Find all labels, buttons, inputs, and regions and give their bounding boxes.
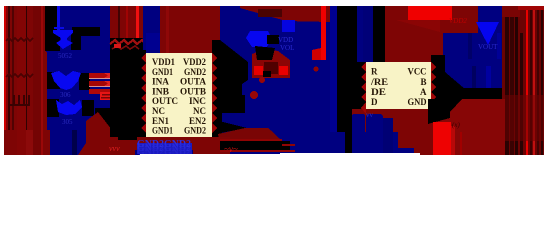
svg-text:GND1: GND1 bbox=[152, 67, 173, 77]
svg-text:306: 306 bbox=[60, 91, 71, 99]
svg-text:D: D bbox=[371, 97, 378, 107]
svg-text:EN1: EN1 bbox=[152, 116, 169, 126]
svg-text:VOUT: VOUT bbox=[478, 43, 498, 51]
svg-text:~v~: ~v~ bbox=[224, 144, 238, 154]
svg-text:GND2: GND2 bbox=[184, 67, 206, 77]
svg-text:VDD1: VDD1 bbox=[152, 57, 175, 67]
svg-text:A: A bbox=[420, 87, 427, 97]
svg-text:GND: GND bbox=[408, 97, 427, 107]
svg-text:OUTB: OUTB bbox=[180, 86, 206, 96]
svg-text:VDD2: VDD2 bbox=[449, 17, 467, 25]
svg-text:VDD: VDD bbox=[278, 36, 293, 44]
svg-text:/RE: /RE bbox=[370, 77, 388, 87]
svg-text:INA: INA bbox=[152, 77, 170, 87]
svg-text:VCC: VCC bbox=[408, 67, 427, 77]
svg-text:(x): (x) bbox=[452, 121, 460, 129]
svg-text:EN2: EN2 bbox=[189, 116, 206, 126]
svg-text:OUTA: OUTA bbox=[180, 77, 207, 87]
svg-text:NC: NC bbox=[152, 106, 165, 116]
svg-text:VDD2: VDD2 bbox=[183, 57, 206, 67]
svg-text:VOL: VOL bbox=[280, 44, 294, 52]
svg-text:R: R bbox=[371, 67, 378, 77]
svg-text:5052: 5052 bbox=[58, 52, 73, 60]
svg-text:305: 305 bbox=[62, 118, 73, 126]
svg-text:INC: INC bbox=[189, 96, 206, 106]
svg-text:GND1: GND1 bbox=[152, 125, 173, 135]
svg-text:INB: INB bbox=[152, 86, 169, 96]
svg-text:GND2: GND2 bbox=[184, 125, 206, 135]
svg-text:DE: DE bbox=[371, 87, 386, 97]
svg-text:vvv: vvv bbox=[109, 144, 120, 153]
svg-text:NC: NC bbox=[193, 106, 206, 116]
svg-text:OUTC: OUTC bbox=[152, 96, 178, 106]
svg-text:vv: vv bbox=[366, 111, 374, 119]
svg-text:B: B bbox=[420, 77, 426, 87]
